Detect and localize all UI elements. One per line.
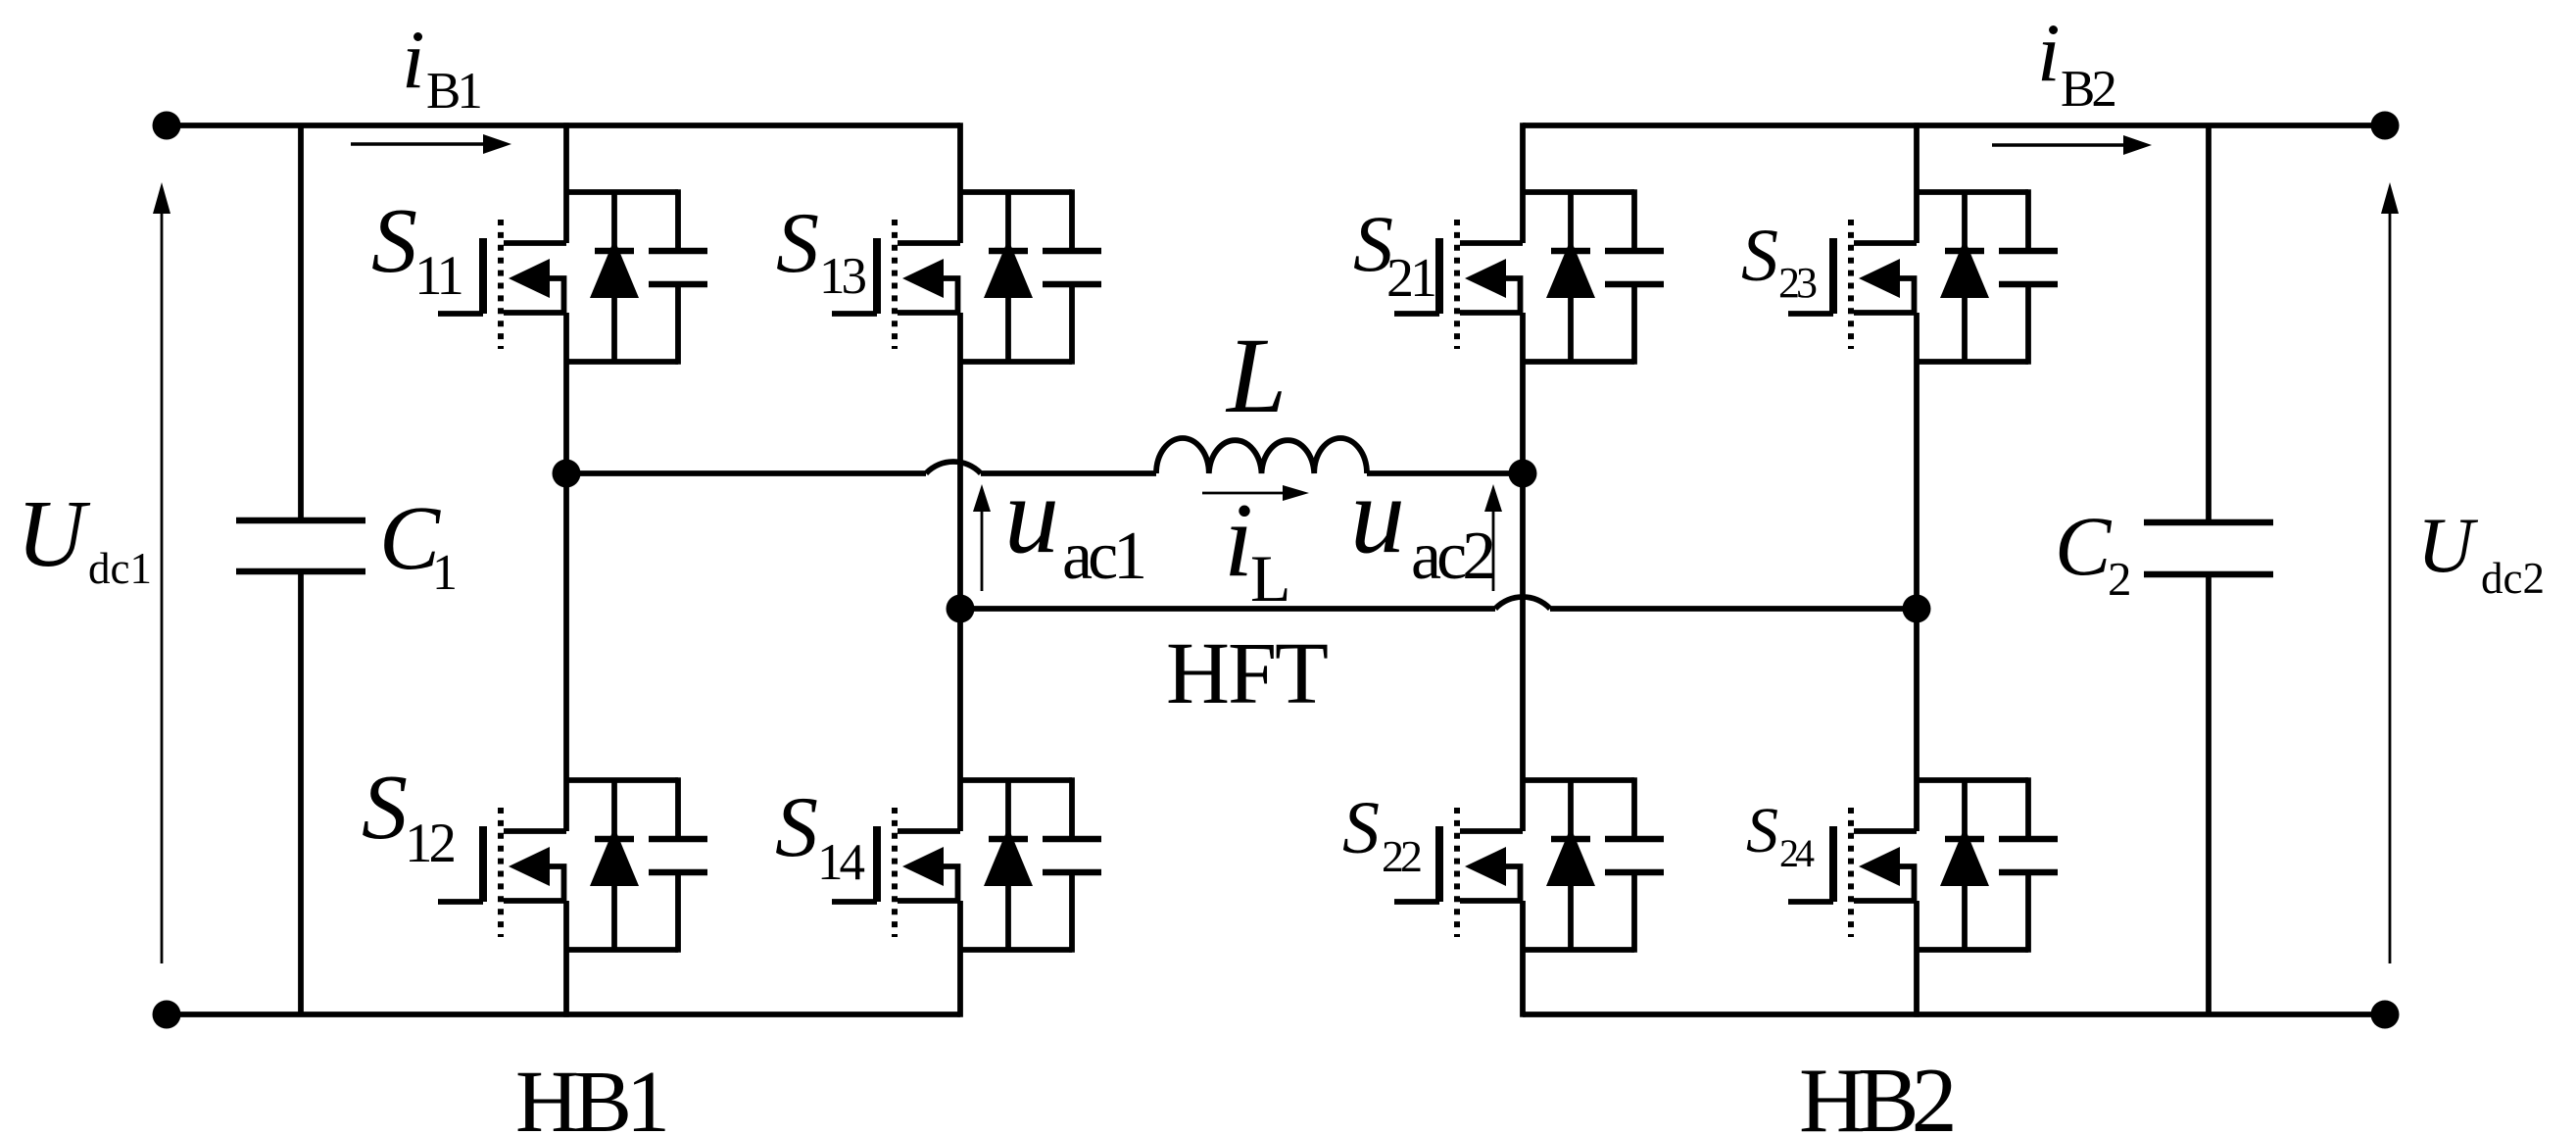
wire: S14 source trunk and cell bottom bus bbox=[960, 901, 1072, 1017]
current arrow iL bbox=[1202, 485, 1309, 501]
voltage arrow uac1 bbox=[973, 484, 991, 591]
snubber capacitor of S22 bbox=[1605, 777, 1664, 953]
wire: S23 source trunk and cell bottom bus bbox=[1917, 313, 2028, 609]
transistor S12 (MOSFET) bbox=[438, 808, 566, 937]
label S23 bbox=[1741, 215, 1817, 307]
svg-text:HB2: HB2 bbox=[1799, 1050, 1953, 1135]
wire: S22 source trunk and cell bottom bus bbox=[1523, 901, 1634, 1017]
wire: S22 drain trunk and cell top bus bbox=[1523, 473, 1634, 831]
svg-text:24: 24 bbox=[1779, 831, 1815, 875]
body diode of S13 bbox=[984, 192, 1033, 362]
label uac2 bbox=[1350, 455, 1493, 594]
label S12 bbox=[362, 757, 455, 874]
svg-text:23: 23 bbox=[1778, 259, 1817, 307]
capacitor C1 bbox=[236, 125, 365, 1014]
body diode of S24 bbox=[1940, 780, 1989, 950]
wire: upper AC link (HB1 left-leg mid to inductor), hump over S13 leg bbox=[566, 462, 1156, 473]
svg-text:11: 11 bbox=[414, 245, 462, 307]
svg-text:ac1: ac1 bbox=[1062, 518, 1143, 594]
svg-text:12: 12 bbox=[405, 813, 455, 874]
label Udc1 bbox=[17, 481, 152, 593]
svg-text:14: 14 bbox=[817, 834, 865, 891]
transistor S14 (MOSFET) bbox=[832, 808, 960, 937]
svg-text:13: 13 bbox=[819, 248, 866, 305]
svg-text:u: u bbox=[1350, 455, 1405, 576]
wire: S24 source trunk and cell bottom bus bbox=[1917, 901, 2028, 1017]
body diode of S12 bbox=[590, 780, 639, 950]
label S11 bbox=[371, 190, 462, 307]
wire: S13 source trunk and cell bottom bus bbox=[960, 313, 1072, 609]
label S24 bbox=[1746, 795, 1815, 875]
svg-text:ac2: ac2 bbox=[1411, 518, 1493, 594]
node: HB1 left-leg midpoint (uac1+) bbox=[553, 460, 581, 488]
wire: HB1 positive DC rail bbox=[167, 123, 960, 128]
transistor S23 (MOSFET) bbox=[1788, 220, 1917, 349]
wire: S21 source trunk and cell bottom bus bbox=[1523, 313, 1634, 473]
wire: S12 drain trunk and cell top bus bbox=[566, 473, 678, 831]
svg-text:22: 22 bbox=[1382, 831, 1421, 881]
transistor S21 (MOSFET) bbox=[1394, 220, 1523, 349]
wire: inductor to HB2 left-leg mid bbox=[1367, 470, 1523, 476]
transistor S24 (MOSFET) bbox=[1788, 808, 1917, 937]
svg-text:HB1: HB1 bbox=[515, 1054, 665, 1135]
svg-text:S: S bbox=[1741, 215, 1778, 297]
body diode of S21 bbox=[1546, 192, 1595, 362]
snubber capacitor of S12 bbox=[649, 777, 707, 953]
svg-text:HFT: HFT bbox=[1166, 625, 1328, 722]
svg-text:S: S bbox=[775, 780, 818, 875]
wire: HB2 negative DC rail bbox=[1523, 1012, 2385, 1017]
snubber capacitor of S13 bbox=[1043, 189, 1101, 365]
label S21 bbox=[1353, 199, 1434, 309]
label iB2 bbox=[2037, 7, 2114, 118]
snubber capacitor of S11 bbox=[649, 189, 707, 365]
node: DC2- terminal bbox=[2371, 1001, 2400, 1029]
svg-text:L: L bbox=[1250, 541, 1291, 616]
label C1 bbox=[379, 488, 458, 601]
measurement arrow Udc2 bbox=[2381, 182, 2399, 963]
wire: S24 drain trunk and cell top bus bbox=[1917, 609, 2028, 831]
svg-text:S: S bbox=[776, 196, 819, 291]
inductor L bbox=[1156, 438, 1367, 473]
node: DC2+ terminal bbox=[2371, 112, 2400, 140]
label S22 bbox=[1342, 787, 1421, 881]
current arrow iB2 bbox=[1992, 135, 2152, 155]
current arrow iB1 bbox=[351, 134, 511, 154]
svg-text:C: C bbox=[2055, 499, 2113, 593]
svg-text:U: U bbox=[17, 481, 91, 586]
svg-text:S: S bbox=[1342, 787, 1380, 869]
wire: S12 source trunk and cell bottom bus bbox=[566, 901, 678, 1017]
label S13 bbox=[776, 196, 866, 305]
svg-text:2: 2 bbox=[2108, 552, 2132, 606]
svg-text:dc2: dc2 bbox=[2481, 554, 2545, 603]
wire: S11 drain trunk and cell top bus bbox=[566, 123, 678, 243]
label uac1 bbox=[1004, 455, 1143, 594]
body diode of S23 bbox=[1940, 192, 1989, 362]
transistor S11 (MOSFET) bbox=[438, 220, 566, 349]
svg-text:S: S bbox=[371, 190, 417, 292]
wire: S14 drain trunk and cell top bus bbox=[960, 609, 1072, 831]
snubber capacitor of S14 bbox=[1043, 777, 1101, 953]
transistor S22 (MOSFET) bbox=[1394, 808, 1523, 937]
svg-text:1: 1 bbox=[432, 545, 458, 601]
svg-text:L: L bbox=[1225, 316, 1287, 435]
transistor S13 (MOSFET) bbox=[832, 220, 960, 349]
voltage arrow uac2 bbox=[1484, 484, 1502, 591]
wire: HB1 negative DC rail bbox=[167, 1012, 960, 1017]
measurement arrow Udc1 bbox=[153, 182, 170, 963]
svg-text:i: i bbox=[2037, 7, 2061, 99]
svg-text:21: 21 bbox=[1386, 248, 1434, 309]
node: HB2 right-leg midpoint bbox=[1903, 595, 1931, 623]
label iB1 bbox=[402, 14, 480, 120]
svg-text:B2: B2 bbox=[2061, 61, 2114, 118]
svg-text:S: S bbox=[1746, 795, 1778, 866]
svg-text:u: u bbox=[1004, 455, 1059, 576]
svg-text:i: i bbox=[402, 14, 425, 106]
svg-text:dc1: dc1 bbox=[88, 544, 152, 593]
svg-text:i: i bbox=[1224, 482, 1253, 599]
wire: S21 drain trunk and cell top bus bbox=[1523, 123, 1634, 243]
snubber capacitor of S21 bbox=[1605, 189, 1664, 365]
svg-text:S: S bbox=[362, 757, 408, 859]
body diode of S11 bbox=[590, 192, 639, 362]
label iL bbox=[1224, 482, 1291, 616]
wire: S11 source trunk and cell bottom bus bbox=[566, 313, 678, 473]
wire: S13 drain trunk and cell top bus bbox=[960, 123, 1072, 243]
label Udc2 bbox=[2417, 503, 2545, 603]
svg-text:B1: B1 bbox=[426, 63, 480, 120]
node: HB1 right-leg midpoint bbox=[947, 595, 975, 623]
wire: lower AC link (HB1 right-leg mid to HB2 right-leg mid), hump over S22 leg bbox=[960, 597, 1917, 609]
capacitor C2 bbox=[2144, 125, 2273, 1014]
wire: HB2 positive DC rail bbox=[1523, 123, 2385, 128]
node: HB2 left-leg midpoint (uac2+) bbox=[1509, 460, 1537, 488]
body diode of S14 bbox=[984, 780, 1033, 950]
node: DC1+ terminal bbox=[153, 112, 181, 140]
svg-text:U: U bbox=[2417, 503, 2479, 589]
label C2 bbox=[2055, 499, 2132, 606]
wire: S23 drain trunk and cell top bus bbox=[1917, 123, 2028, 243]
snubber capacitor of S24 bbox=[1999, 777, 2058, 953]
snubber capacitor of S23 bbox=[1999, 189, 2058, 365]
label S14 bbox=[775, 780, 865, 891]
node: DC1- terminal bbox=[153, 1001, 181, 1029]
body diode of S22 bbox=[1546, 780, 1595, 950]
